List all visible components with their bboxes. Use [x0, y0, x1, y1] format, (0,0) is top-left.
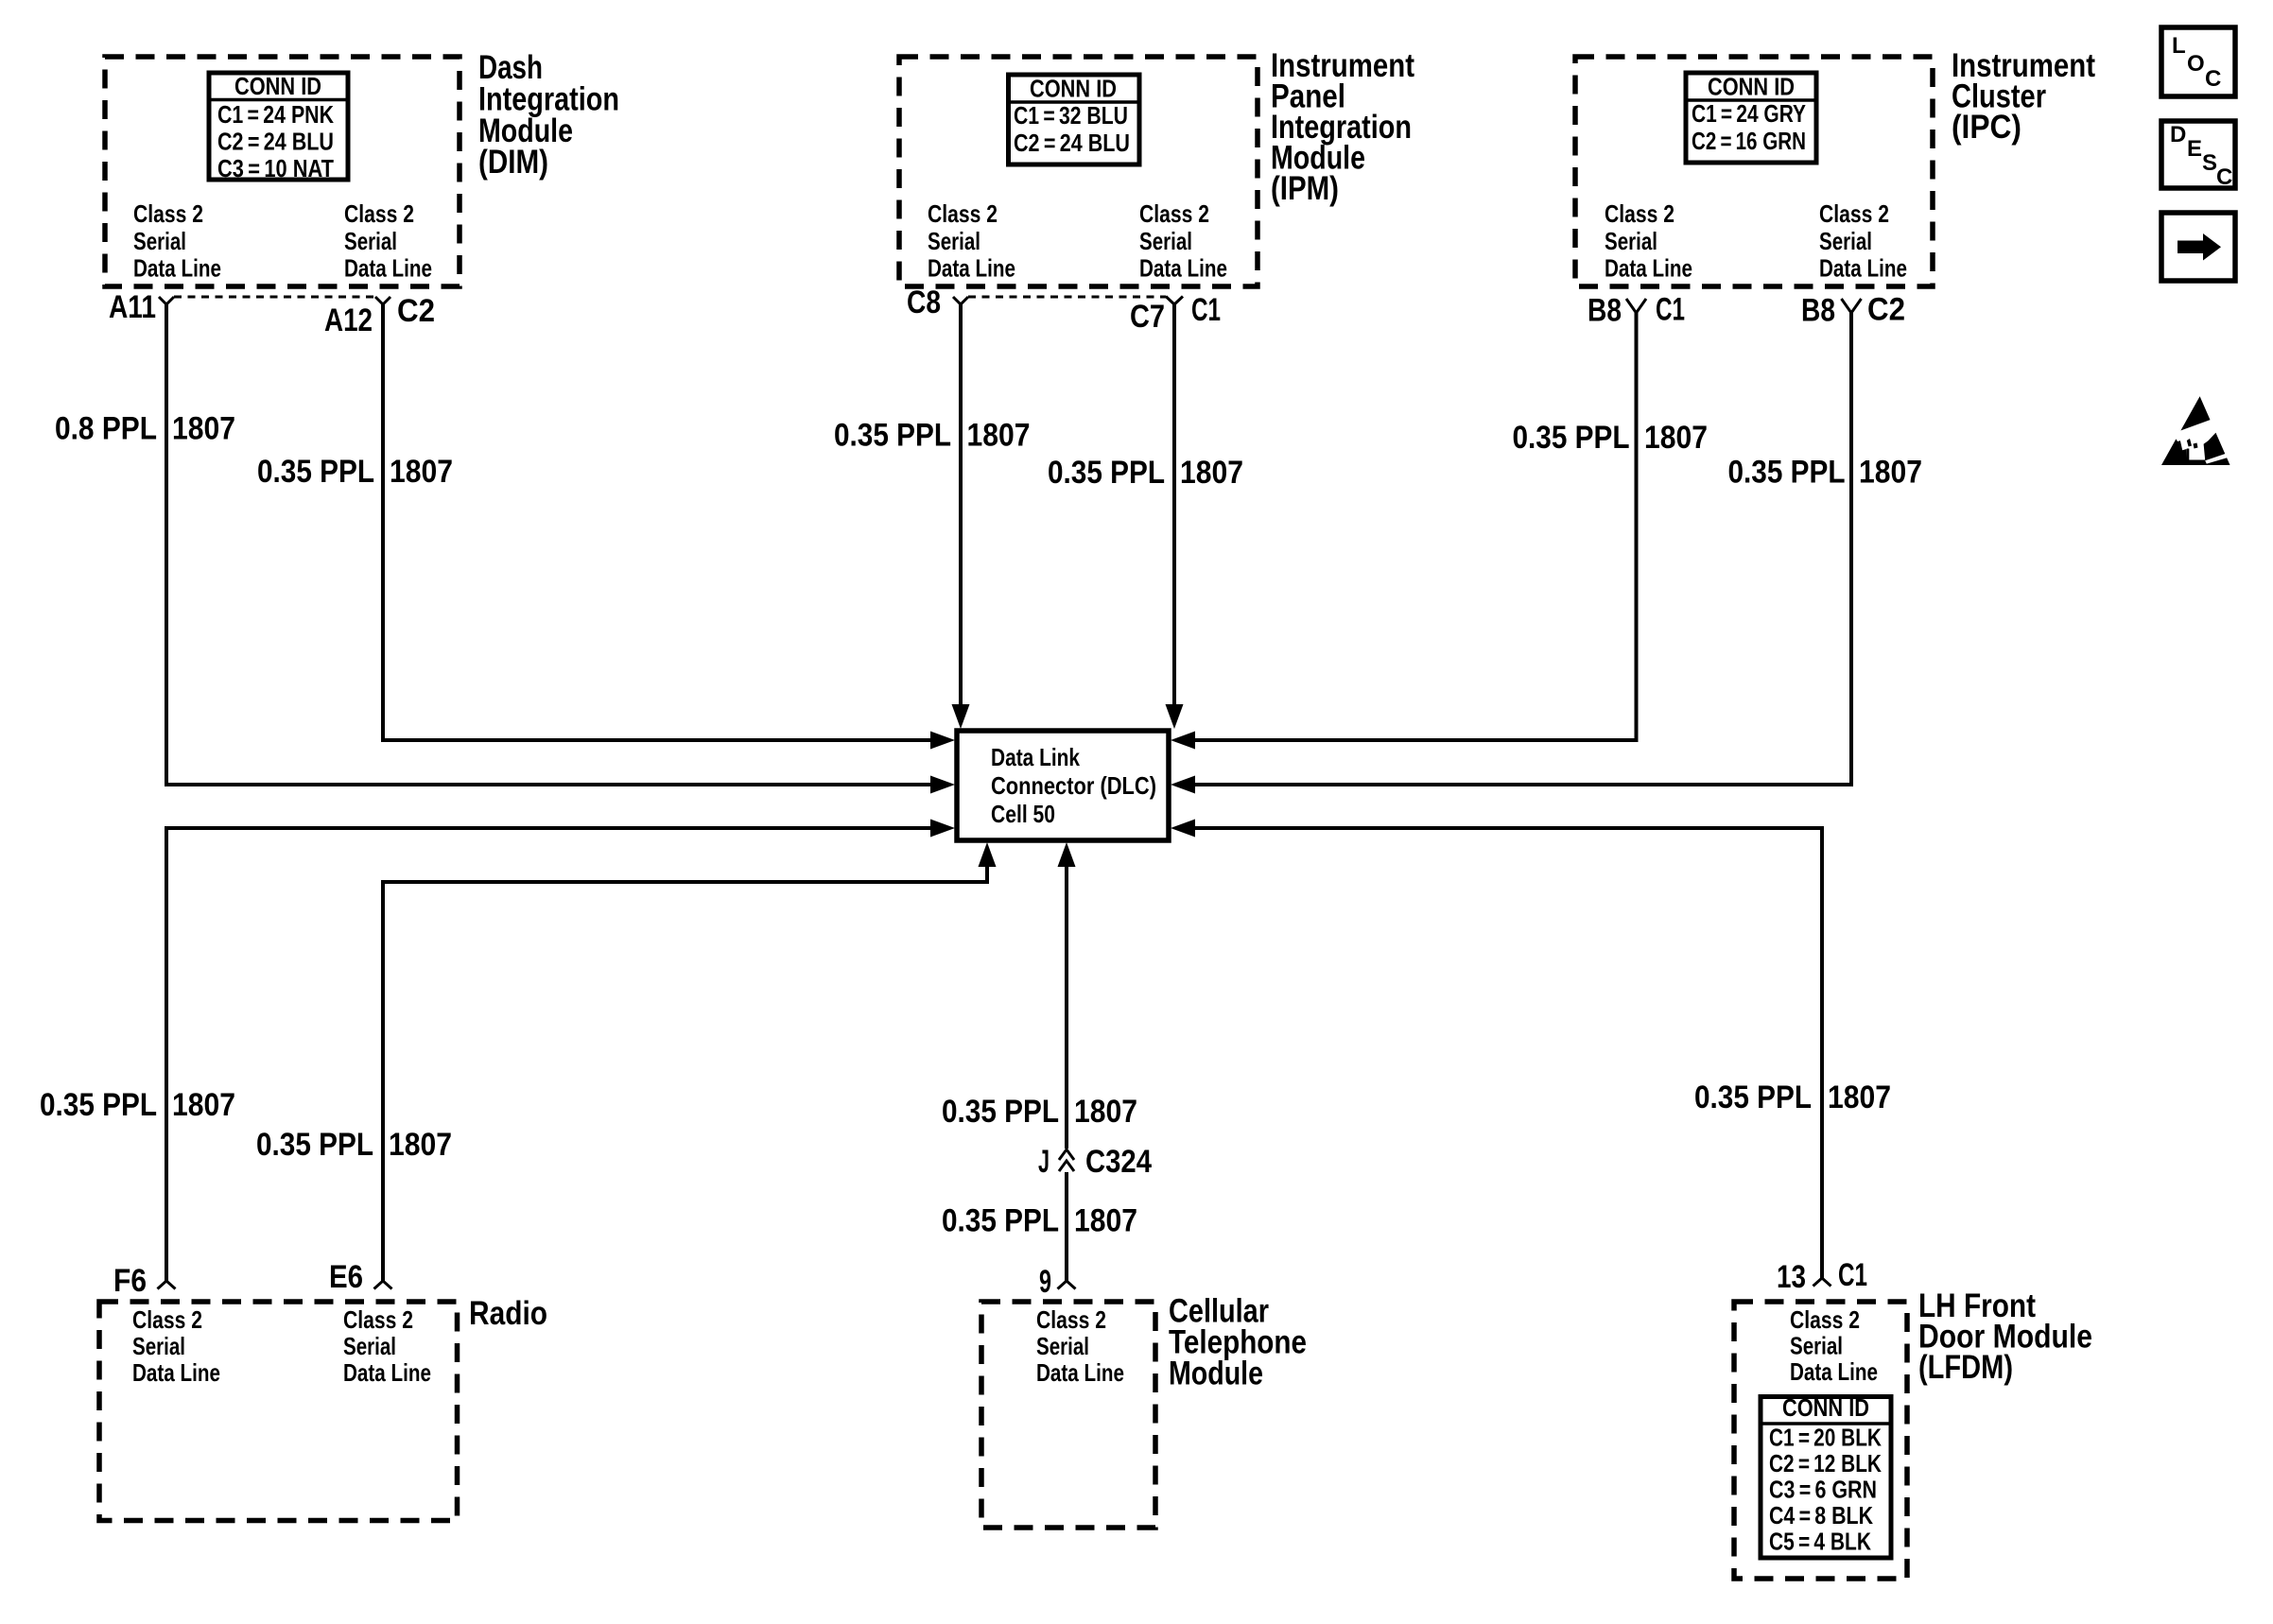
IPC CONN ID table: [1686, 73, 1816, 164]
svg-text:C2 = 24 BLU: C2 = 24 BLU: [217, 128, 334, 156]
svg-text:Class 2: Class 2: [344, 199, 414, 228]
IPM label Class 2 Serial Data Line (right): [1139, 199, 1227, 283]
svg-text:Cell 50: Cell 50: [991, 800, 1055, 828]
svg-text:C1 = 24 PNK: C1 = 24 PNK: [217, 100, 334, 129]
svg-text:0.35 PPL: 0.35 PPL: [256, 1127, 373, 1163]
svg-text:Data Line: Data Line: [343, 1358, 431, 1387]
svg-text:C2: C2: [1867, 292, 1905, 328]
svg-text:L: L: [2172, 33, 2186, 59]
svg-text:1807: 1807: [1074, 1203, 1137, 1239]
svg-text:Data Line: Data Line: [133, 254, 221, 283]
svg-text:Serial: Serial: [1605, 227, 1657, 255]
svg-text:C7: C7: [1130, 299, 1165, 335]
DIM label Class 2 Serial Data Line (right): [344, 199, 432, 283]
svg-text:Serial: Serial: [1819, 227, 1872, 255]
svg-text:Data Line: Data Line: [1790, 1357, 1878, 1386]
svg-text:CONN ID: CONN ID: [1782, 1393, 1869, 1422]
svg-text:C1: C1: [1191, 292, 1221, 328]
svg-text:0.35 PPL: 0.35 PPL: [834, 418, 951, 454]
svg-text:O: O: [2187, 51, 2205, 77]
LFDM label Class 2 Serial Data Line: [1790, 1305, 1878, 1386]
svg-text:Data Line: Data Line: [1605, 254, 1692, 283]
svg-text:Serial: Serial: [928, 227, 980, 255]
svg-text:A12: A12: [324, 302, 373, 338]
svg-text:(DIM): (DIM): [478, 144, 548, 181]
svg-text:C3 = 6 GRN: C3 = 6 GRN: [1769, 1476, 1877, 1504]
IPC label Class 2 Serial Data Line (right): [1819, 199, 1907, 283]
svg-text:C324: C324: [1085, 1144, 1152, 1180]
svg-text:C1 = 32 BLU: C1 = 32 BLU: [1014, 101, 1128, 130]
svg-text:1807: 1807: [1180, 455, 1243, 491]
wire E6 to DLC bottom 0.35 PPL 1807: [383, 867, 987, 1281]
legend DESC box: [2161, 121, 2235, 190]
svg-text:Module: Module: [1169, 1356, 1263, 1392]
svg-text:Data Line: Data Line: [1819, 254, 1907, 283]
svg-text:Data Link: Data Link: [991, 743, 1080, 771]
svg-text:C2 = 16 GRN: C2 = 16 GRN: [1692, 127, 1806, 155]
svg-text:E: E: [2187, 136, 2202, 162]
wire A12/C2 to DLC 0.35 PPL 1807: [383, 304, 932, 740]
svg-text:(IPM): (IPM): [1271, 170, 1339, 207]
svg-text:Serial: Serial: [132, 1332, 185, 1360]
svg-text:Data Line: Data Line: [1036, 1358, 1124, 1387]
svg-text:C1 = 24 GRY: C1 = 24 GRY: [1692, 99, 1806, 128]
svg-text:(LFDM): (LFDM): [1918, 1349, 2013, 1386]
svg-text:1807: 1807: [389, 1127, 452, 1163]
svg-text:C2 = 24 BLU: C2 = 24 BLU: [1014, 129, 1130, 157]
DIM connector face dashed line: [174, 296, 375, 299]
module name label IPC: [1952, 47, 2095, 146]
svg-text:Serial: Serial: [133, 227, 186, 255]
svg-text:Class 2: Class 2: [132, 1305, 202, 1334]
svg-text:1807: 1807: [1828, 1080, 1891, 1115]
pin A12 of DIM connector C2: [375, 297, 390, 304]
svg-text:C2: C2: [397, 293, 435, 329]
module name label IPM: [1271, 47, 1414, 207]
svg-text:Serial: Serial: [1139, 227, 1192, 255]
svg-text:S: S: [2202, 150, 2217, 176]
wire B8/C1 IPC to DLC 0.35 PPL 1807: [1193, 313, 1637, 740]
svg-text:0.35 PPL: 0.35 PPL: [1513, 420, 1630, 456]
pin 9 of Cellular Telephone Module: [1058, 1281, 1076, 1289]
svg-text:0.35 PPL: 0.35 PPL: [1048, 455, 1165, 491]
wire LFDM 13/C1 to DLC 0.35 PPL 1807: [1193, 828, 1822, 1278]
pin A11 of DIM: [159, 297, 174, 304]
svg-text:Serial: Serial: [344, 227, 397, 255]
svg-text:1807: 1807: [1074, 1094, 1137, 1130]
module IPC dashed box: [1575, 57, 1933, 286]
DIM label Class 2 Serial Data Line (left): [133, 199, 221, 283]
wire J C324 to DLC bottom (upper segment) 0.35 PPL 1807: [1065, 867, 1068, 1149]
pin F6 of Radio: [158, 1281, 176, 1289]
svg-text:1807: 1807: [172, 1087, 235, 1123]
pin B8 of IPC connector C2: [1842, 299, 1862, 313]
svg-text:Class 2: Class 2: [928, 199, 998, 228]
svg-text:E6: E6: [329, 1259, 363, 1295]
Radio label Class 2 Serial Data Line (left): [132, 1305, 220, 1387]
inline connector J C324: [1059, 1149, 1074, 1160]
svg-text:CONN ID: CONN ID: [1030, 75, 1117, 103]
pin C7 of IPM connector C1: [1166, 297, 1183, 305]
svg-text:Data Line: Data Line: [132, 1358, 220, 1387]
svg-text:C5 = 4 BLK: C5 = 4 BLK: [1769, 1528, 1871, 1556]
wire F6 to DLC 0.35 PPL 1807: [166, 828, 932, 1281]
svg-text:1807: 1807: [172, 411, 235, 447]
svg-text:Data Line: Data Line: [928, 254, 1015, 283]
DIM CONN ID table: [209, 72, 348, 182]
svg-text:13: 13: [1777, 1259, 1806, 1295]
svg-text:Class 2: Class 2: [1819, 199, 1889, 228]
svg-text:Class 2: Class 2: [1036, 1305, 1106, 1334]
svg-text:1807: 1807: [967, 418, 1031, 454]
svg-text:J: J: [1038, 1144, 1050, 1180]
svg-text:(IPC): (IPC): [1952, 109, 2021, 146]
svg-text:A11: A11: [109, 289, 156, 325]
LFDM CONN ID table: [1761, 1393, 1891, 1558]
IPM label Class 2 Serial Data Line (left): [928, 199, 1015, 283]
module DIM dashed box: [105, 57, 460, 286]
pin E6 of Radio: [374, 1281, 392, 1289]
IPM connector face dashed line: [968, 296, 1166, 299]
svg-text:0.35 PPL: 0.35 PPL: [40, 1087, 157, 1123]
svg-text:C3 = 10 NAT: C3 = 10 NAT: [217, 154, 334, 182]
svg-text:C1: C1: [1656, 292, 1685, 328]
module Radio dashed box: [99, 1302, 458, 1521]
svg-text:1807: 1807: [1644, 420, 1708, 456]
svg-text:C: C: [2216, 164, 2232, 190]
wire C7/C1 to DLC top 0.35 PPL 1807: [1172, 304, 1176, 705]
IPM CONN ID table: [1009, 75, 1140, 165]
module name label Cellular Telephone Module: [1169, 1293, 1307, 1392]
svg-text:Radio: Radio: [469, 1295, 547, 1332]
module name label LFDM: [1918, 1287, 2092, 1386]
wire A11 to DLC 0.8 PPL 1807: [166, 304, 932, 785]
svg-text:Serial: Serial: [1036, 1332, 1089, 1360]
svg-text:Data Line: Data Line: [1139, 254, 1227, 283]
svg-text:0.35 PPL: 0.35 PPL: [1694, 1080, 1812, 1115]
module Cellular Telephone dashed box: [981, 1302, 1155, 1528]
svg-text:0.35 PPL: 0.35 PPL: [257, 454, 374, 490]
wire B8/C2 IPC to DLC 0.35 PPL 1807: [1193, 313, 1851, 785]
svg-text:C8: C8: [907, 285, 941, 320]
Cellular label Class 2 Serial Data Line: [1036, 1305, 1124, 1387]
svg-text:Serial: Serial: [1790, 1332, 1843, 1360]
svg-text:Data Line: Data Line: [344, 254, 432, 283]
pin B8 of IPC connector C1: [1626, 299, 1646, 313]
svg-text:0.35 PPL: 0.35 PPL: [1728, 455, 1846, 491]
Radio label Class 2 Serial Data Line (right): [343, 1305, 431, 1387]
svg-text:0.35 PPL: 0.35 PPL: [942, 1094, 1059, 1130]
svg-text:Serial: Serial: [343, 1332, 396, 1360]
svg-text:CONN ID: CONN ID: [1708, 73, 1795, 101]
svg-text:9: 9: [1039, 1264, 1051, 1300]
svg-text:0.8 PPL: 0.8 PPL: [55, 411, 157, 447]
svg-text:C4 = 8 BLK: C4 = 8 BLK: [1769, 1501, 1873, 1529]
svg-text:0.35 PPL: 0.35 PPL: [942, 1203, 1059, 1239]
wire C8 to DLC top 0.35 PPL 1807: [959, 304, 963, 705]
svg-text:B8: B8: [1801, 293, 1835, 329]
svg-text:Class 2: Class 2: [1139, 199, 1209, 228]
svg-text:CONN ID: CONN ID: [234, 72, 321, 100]
module IPM dashed box: [899, 57, 1258, 286]
wire cellular pin 9 to DLC bottom (lower segment) 0.35 PPL 1807: [1065, 1172, 1068, 1281]
legend LOC box: [2161, 27, 2235, 96]
pin C8 of IPM: [953, 297, 968, 304]
Data Link Connector DLC box: [957, 731, 1169, 840]
svg-text:D: D: [2170, 122, 2186, 147]
svg-text:C1 = 20 BLK: C1 = 20 BLK: [1769, 1424, 1882, 1452]
svg-text:C1: C1: [1838, 1257, 1867, 1293]
svg-text:F6: F6: [113, 1263, 147, 1299]
svg-text:1807: 1807: [390, 454, 453, 490]
svg-text:Class 2: Class 2: [343, 1305, 413, 1334]
module name label DIM: [478, 49, 619, 181]
legend forward arrow box: [2161, 213, 2235, 281]
ESD warning symbol: [2161, 396, 2232, 465]
svg-text:Connector (DLC): Connector (DLC): [991, 771, 1156, 800]
IPC label Class 2 Serial Data Line (left): [1605, 199, 1692, 283]
pin 13 of LFDM connector C1: [1813, 1278, 1831, 1287]
module LFDM dashed box: [1734, 1302, 1907, 1579]
svg-text:Class 2: Class 2: [1605, 199, 1674, 228]
svg-text:Class 2: Class 2: [133, 199, 203, 228]
svg-text:1807: 1807: [1859, 455, 1922, 491]
svg-text:B8: B8: [1588, 293, 1622, 329]
svg-text:C2 = 12 BLK: C2 = 12 BLK: [1769, 1449, 1882, 1477]
svg-text:Class 2: Class 2: [1790, 1305, 1860, 1334]
svg-text:C: C: [2205, 66, 2221, 92]
